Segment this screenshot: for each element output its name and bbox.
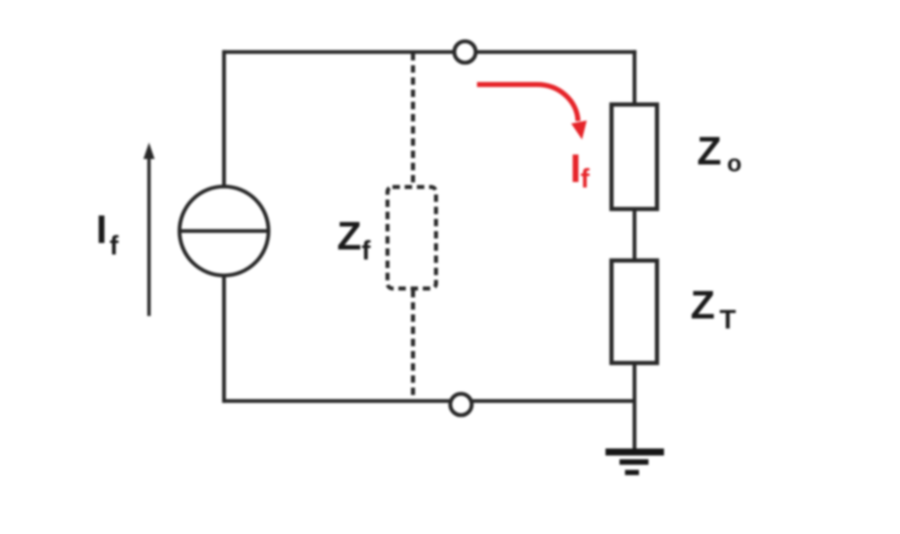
- svg-text:Z: Z: [697, 130, 721, 174]
- svg-text:o: o: [727, 151, 742, 178]
- wire right vertical upper: [633, 50, 637, 106]
- wire left vertical upper: [222, 50, 226, 188]
- wire left vertical lower: [222, 275, 226, 403]
- impedance Zf dashed box: [388, 187, 437, 289]
- svg-text:f: f: [110, 231, 120, 261]
- terminal node top: [454, 41, 475, 62]
- svg-text:f: f: [362, 236, 372, 266]
- current source If circle: [180, 187, 269, 276]
- svg-text:I: I: [96, 208, 107, 252]
- wire below ZT to ground: [633, 362, 637, 450]
- svg-text:I: I: [570, 147, 581, 191]
- arrow for source current If: [143, 143, 154, 317]
- red current flow arrow: [477, 84, 587, 139]
- ground: [606, 452, 665, 473]
- resistor Zo: [612, 105, 658, 210]
- svg-text:Z: Z: [691, 284, 715, 328]
- svg-text:f: f: [581, 164, 591, 194]
- terminal node bottom: [450, 394, 471, 415]
- svg-text:T: T: [720, 305, 737, 335]
- dashed wire above Zf: [411, 53, 415, 188]
- wire top horizontal: [223, 50, 637, 54]
- wire between Zo and ZT: [633, 207, 637, 262]
- svg-text:Z: Z: [337, 215, 361, 259]
- dashed wire below Zf: [411, 290, 415, 403]
- wire bottom horizontal: [223, 399, 635, 403]
- resistor ZT: [612, 261, 658, 364]
